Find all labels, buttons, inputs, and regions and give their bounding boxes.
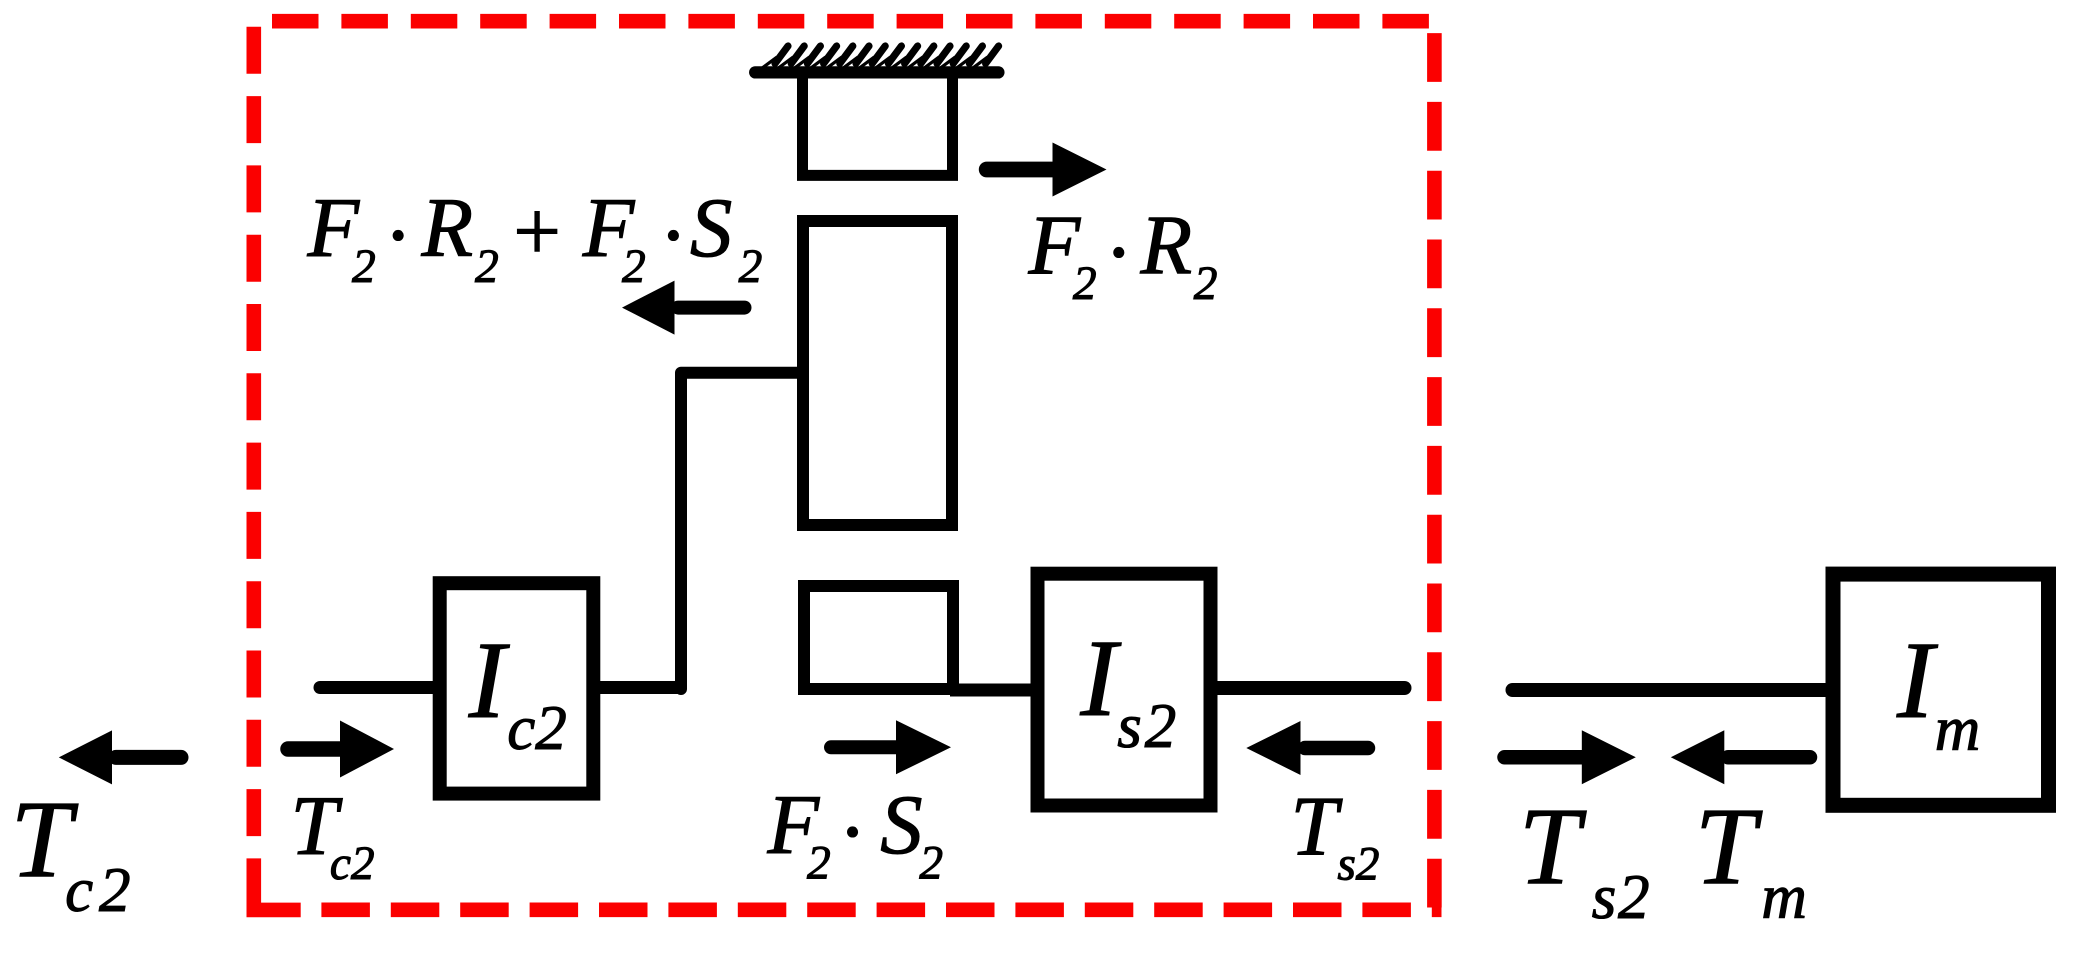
arrow F2S2 (mid bottom) [831,740,901,754]
shaft wire Is2 right stub [1211,681,1405,695]
dashed red boundary: bottom-left corner piece [247,903,301,918]
svg-text:Ts2: Ts2 [1291,780,1380,890]
svg-text:Im: Im [1896,619,1980,764]
block Ic2 [440,583,594,793]
carrier tall box [803,221,952,525]
sun small box [804,586,953,689]
arrow F2R2+F2S2 (left, mid-upper) [678,301,745,315]
block Im [1833,574,2049,805]
svg-text:Tm: Tm [1695,785,1807,932]
svg-text:F2·R2+F2·S2: F2·R2+F2·S2 [307,182,763,293]
arrow Tc2 outer (far left) [116,750,181,765]
svg-text:Tc2: Tc2 [11,778,131,925]
dashed red boundary: right edge [1427,33,1442,917]
fixed support bar [755,66,998,78]
elbow wire from carrier to Ic2 shaft [681,373,797,689]
svg-text:F2·R2: F2·R2 [1027,199,1217,310]
shaft wire sun box to Is2 [950,684,1037,697]
dashed red boundary: left edge [247,27,262,903]
arrow Ts2 inner (into Is2) [1305,741,1368,756]
fixed support hatching [763,46,999,68]
svg-text:F2·S2: F2·S2 [766,779,943,890]
arrow Ts2 outer (right pair) [1505,750,1587,765]
ring gear box (open top, under support) [803,72,953,175]
svg-text:Tc2: Tc2 [291,780,375,890]
svg-text:Is2: Is2 [1079,617,1176,761]
arrow F2R2 (top right) [987,162,1058,178]
svg-text:Ic2: Ic2 [468,619,567,763]
shaft wire into Ic2 (left stub) [320,681,434,694]
shaft wire Ic2 to elbow [600,681,678,694]
arrow Tm (into Im) [1728,750,1810,765]
shaft wire into Im [1513,683,1831,697]
svg-text:Ts2: Ts2 [1519,785,1650,932]
block Is2 [1038,574,1211,806]
dashed red boundary: bottom edge [321,902,1441,917]
arrow Tc2 inner (into Ic2) [288,741,345,757]
dashed red boundary: top edge [272,14,1442,29]
